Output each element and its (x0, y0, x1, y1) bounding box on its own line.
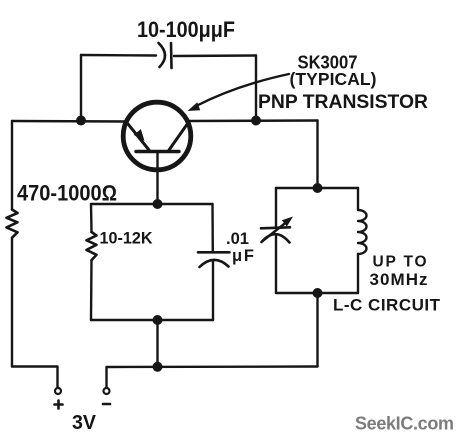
wire base to ground bus (156, 320, 158, 367)
node junction collector-cap (251, 116, 261, 126)
wire LC left lower (275, 235, 277, 293)
svg-text:30MHz: 30MHz (370, 270, 428, 289)
label minus sign (103, 403, 110, 406)
wire feedback right drop (255, 56, 257, 121)
wire battery plus branch (12, 367, 58, 389)
wire base lead (156, 152, 158, 204)
wire loop top (91, 203, 213, 205)
svg-text:PNP TRANSISTOR: PNP TRANSISTOR (258, 92, 428, 113)
node junction loop top (153, 199, 163, 209)
svg-text:3V: 3V (72, 411, 96, 434)
annotation arrow to transistor (188, 74, 290, 111)
node junction top-left (76, 116, 86, 126)
resistor R2 10-12K (87, 232, 97, 260)
wire battery minus branch (105, 367, 107, 388)
inductor L1 (358, 210, 367, 254)
wire loop left lower (90, 260, 93, 320)
wire LC right upper (357, 188, 359, 210)
svg-text:μF: μF (232, 247, 254, 265)
wire collector corner drop (316, 121, 318, 189)
wire ground bus (107, 365, 318, 368)
svg-text:10-100μμF: 10-100μμF (137, 17, 235, 42)
terminal plus (55, 388, 61, 394)
wire left rail lower (11, 238, 13, 367)
wire LC drop to bus (316, 293, 318, 367)
wire feedback left drop (80, 55, 82, 120)
wire loop right upper (211, 204, 214, 252)
wire loop left upper (90, 204, 93, 232)
transistor Q1 SK3007 (123, 102, 191, 170)
resistor R1 470-1000ohm (7, 210, 18, 238)
svg-text:470-1000Ω: 470-1000Ω (17, 181, 117, 206)
wire loop bottom (91, 319, 213, 321)
wire emitter horizontal (12, 120, 127, 123)
node junction LC bottom (313, 288, 323, 298)
terminal minus (104, 388, 110, 394)
wire top feedback right (174, 54, 256, 57)
svg-text:10-12K: 10-12K (100, 230, 153, 248)
node junction bus (153, 362, 163, 372)
node junction LC top (313, 183, 323, 193)
svg-text:SeekIC.com: SeekIC.com (355, 414, 454, 434)
node junction loop bottom (153, 315, 163, 325)
wire loop right lower (212, 261, 214, 320)
capacitor C2 .01uF (198, 252, 230, 267)
svg-text:UP TO: UP TO (373, 254, 427, 271)
capacitor C3 variable (261, 217, 293, 243)
wire LC left upper (275, 188, 277, 227)
wire LC bottom (276, 292, 358, 294)
label plus sign (55, 401, 63, 409)
wire LC right lower (357, 254, 359, 293)
wire collector horizontal (187, 119, 318, 122)
svg-text:L-C CIRCUIT: L-C CIRCUIT (333, 296, 441, 315)
wire top feedback left (81, 54, 156, 57)
capacitor C1 10-100uuF (159, 43, 172, 68)
svg-text:.01: .01 (226, 230, 249, 248)
wire LC top (276, 187, 358, 189)
wire left rail upper (11, 121, 13, 210)
svg-text:(TYPICAL): (TYPICAL) (290, 69, 377, 89)
